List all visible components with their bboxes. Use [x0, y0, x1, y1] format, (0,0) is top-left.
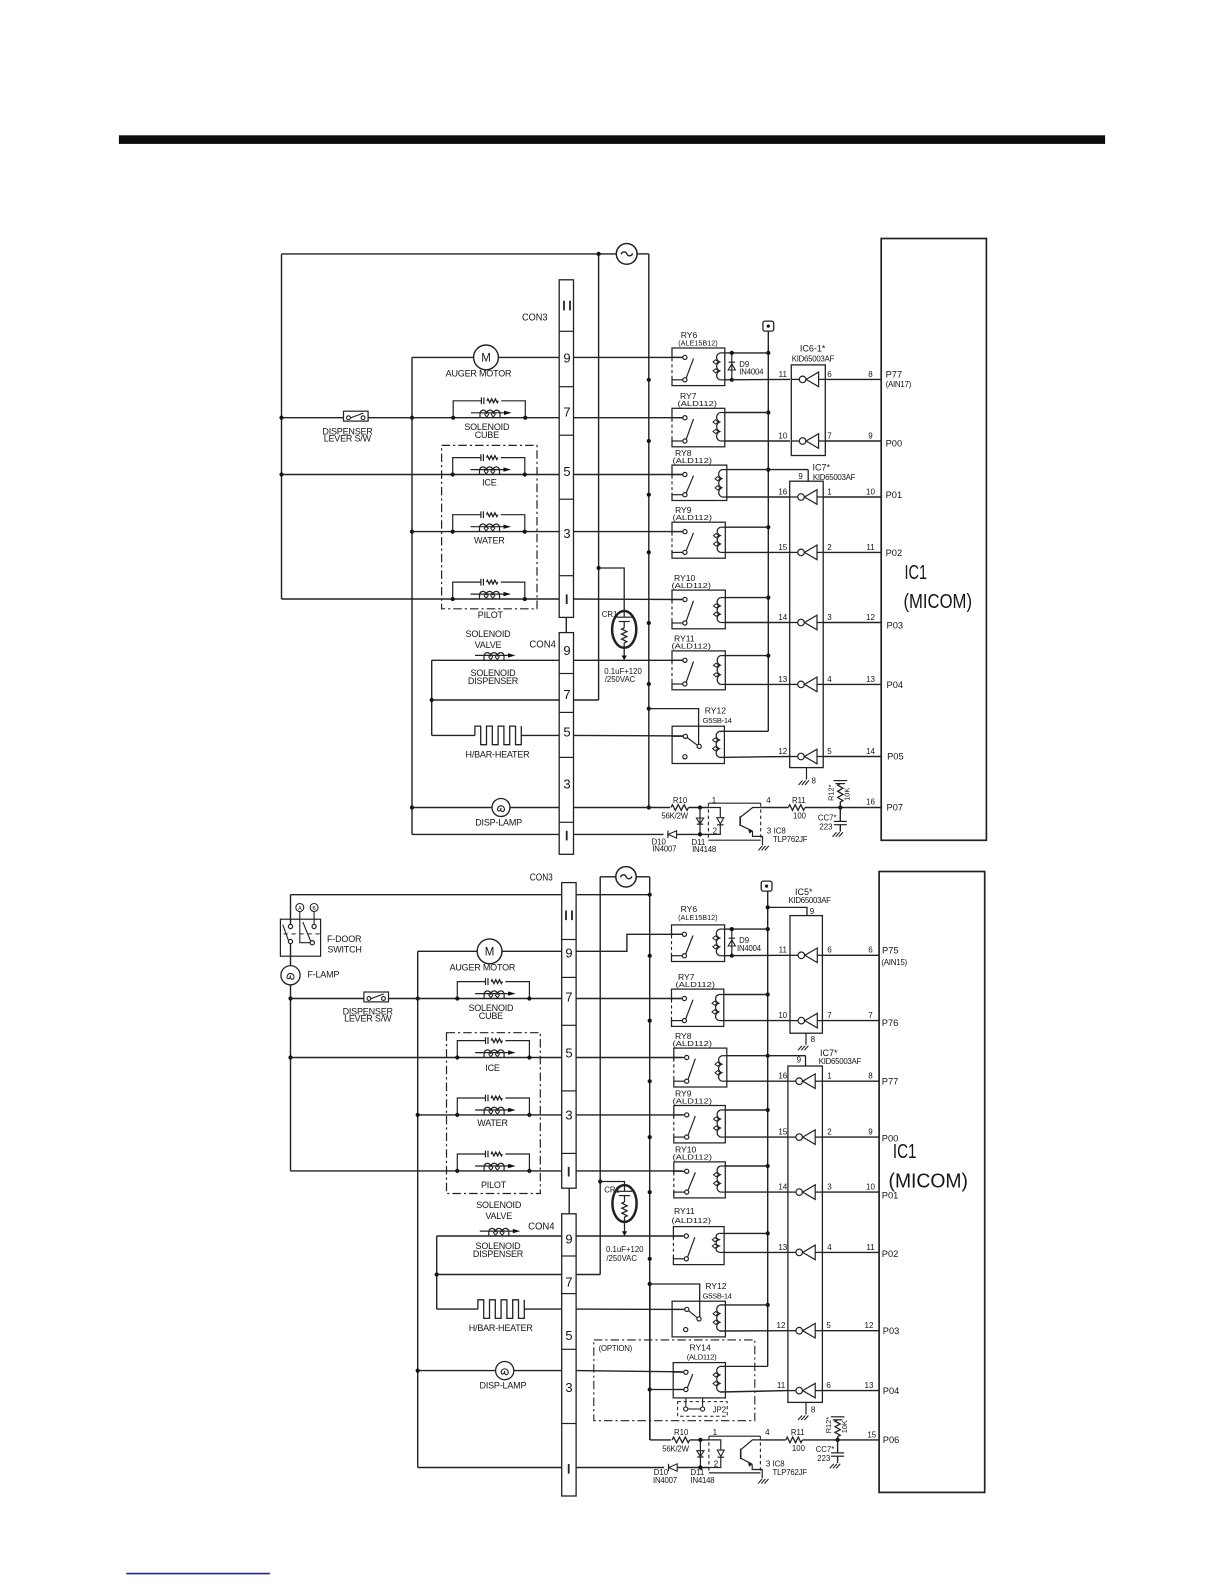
svg-text:6: 6	[826, 1381, 831, 1390]
svg-text:ICE: ICE	[485, 1063, 500, 1073]
svg-text:3: 3	[565, 1108, 572, 1123]
svg-text:(ALD112): (ALD112)	[673, 1096, 713, 1105]
svg-text:13: 13	[865, 1381, 874, 1390]
svg-text:7: 7	[565, 1275, 572, 1290]
svg-text:7: 7	[565, 989, 572, 1004]
svg-text:CON4: CON4	[528, 1221, 555, 1233]
svg-text:5: 5	[826, 1321, 831, 1330]
svg-text:(ALD112): (ALD112)	[672, 581, 712, 590]
svg-text:CR1: CR1	[604, 1185, 620, 1194]
svg-text:H/BAR-HEATER: H/BAR-HEATER	[466, 749, 531, 759]
svg-text:F-DOOR: F-DOOR	[327, 934, 362, 944]
svg-text:13: 13	[778, 1243, 787, 1252]
svg-text:10: 10	[866, 487, 875, 496]
svg-text:100: 100	[793, 812, 807, 821]
svg-text:WATER: WATER	[477, 1118, 508, 1128]
svg-text:15: 15	[778, 543, 787, 552]
svg-text:P07: P07	[887, 803, 904, 813]
svg-text:12: 12	[866, 613, 875, 622]
svg-text:VALVE: VALVE	[475, 640, 502, 650]
svg-text:WATER: WATER	[474, 536, 505, 546]
svg-text:7: 7	[563, 404, 570, 419]
svg-text:2: 2	[714, 1459, 719, 1468]
svg-text:2: 2	[713, 827, 718, 836]
svg-text:16: 16	[778, 1072, 787, 1081]
svg-text:(ALE15B12): (ALE15B12)	[678, 339, 718, 348]
svg-text:56K/2W: 56K/2W	[661, 811, 688, 820]
svg-text:100: 100	[792, 1444, 806, 1453]
svg-text:AUGER MOTOR: AUGER MOTOR	[450, 963, 516, 973]
svg-text:KID65003AF: KID65003AF	[789, 896, 832, 905]
svg-text:2: 2	[827, 1128, 832, 1137]
svg-text:IN4148: IN4148	[691, 1476, 715, 1485]
svg-text:8: 8	[868, 370, 873, 379]
svg-text:6: 6	[827, 946, 832, 955]
svg-text:6: 6	[827, 370, 832, 379]
svg-text:9: 9	[563, 643, 570, 658]
svg-text:7: 7	[868, 1011, 873, 1020]
svg-text:CR1: CR1	[602, 610, 618, 619]
svg-text:3: 3	[563, 526, 570, 541]
svg-text:A: A	[298, 906, 302, 912]
svg-text:DISPENSER: DISPENSER	[468, 676, 519, 686]
svg-text:11: 11	[779, 946, 788, 955]
svg-text:IN4007: IN4007	[652, 845, 676, 854]
svg-text:(ALD112): (ALD112)	[673, 1153, 713, 1162]
svg-text:13: 13	[778, 675, 787, 684]
svg-text:ICE: ICE	[482, 477, 497, 487]
svg-text:G5SB-14: G5SB-14	[703, 1291, 732, 1300]
svg-text:8: 8	[868, 1072, 873, 1081]
svg-text:LEVER S/W: LEVER S/W	[344, 1014, 392, 1024]
svg-text:9: 9	[565, 945, 572, 960]
svg-text:LEVER S/W: LEVER S/W	[324, 433, 372, 443]
svg-text:(ALD112): (ALD112)	[673, 1039, 713, 1048]
svg-text:5: 5	[563, 725, 570, 740]
svg-text:KID65003AF: KID65003AF	[792, 355, 835, 364]
svg-text:3: 3	[563, 777, 570, 792]
svg-text:10: 10	[866, 1183, 875, 1192]
svg-text:56K/2W: 56K/2W	[662, 1444, 689, 1453]
svg-text:H/BAR-HEATER: H/BAR-HEATER	[469, 1323, 534, 1333]
svg-text:RY14: RY14	[689, 1342, 711, 1352]
svg-text:VALVE: VALVE	[485, 1211, 512, 1221]
svg-text:(MICOM): (MICOM)	[904, 590, 973, 613]
svg-text:16: 16	[866, 797, 875, 806]
svg-text:14: 14	[778, 1183, 787, 1192]
svg-text:15: 15	[867, 1431, 876, 1440]
svg-text:16: 16	[778, 487, 787, 496]
svg-text:(ALD112): (ALD112)	[676, 980, 716, 989]
svg-text:G5SB-14: G5SB-14	[703, 716, 732, 725]
svg-text:0.1uF+120: 0.1uF+120	[606, 1245, 644, 1254]
svg-text:1: 1	[827, 487, 832, 496]
svg-text:(AIN17): (AIN17)	[886, 380, 912, 389]
svg-text:14: 14	[778, 613, 787, 622]
svg-text:P02: P02	[886, 548, 903, 558]
svg-text:R12*: R12*	[824, 1417, 833, 1434]
svg-text:9: 9	[797, 1056, 802, 1065]
svg-text:(ALD112): (ALD112)	[678, 399, 718, 408]
svg-text:/250VAC: /250VAC	[605, 675, 636, 684]
svg-text:15: 15	[778, 1128, 787, 1137]
svg-text:P77: P77	[882, 1077, 899, 1087]
svg-text:IN4004: IN4004	[739, 368, 764, 377]
svg-text:PILOT: PILOT	[481, 1180, 507, 1190]
svg-text:10: 10	[778, 431, 787, 440]
svg-text:P03: P03	[887, 620, 904, 630]
svg-text:7: 7	[827, 431, 832, 440]
svg-text:R10: R10	[673, 796, 688, 805]
svg-text:11: 11	[866, 543, 875, 552]
svg-text:(MICOM): (MICOM)	[889, 1170, 969, 1193]
svg-text:12: 12	[865, 1321, 874, 1330]
svg-text:3: 3	[827, 613, 832, 622]
svg-text:(ALD112): (ALD112)	[672, 642, 712, 651]
svg-text:8: 8	[811, 1035, 816, 1044]
svg-text:AUGER MOTOR: AUGER MOTOR	[446, 368, 512, 378]
svg-text:5: 5	[563, 464, 570, 479]
svg-text:M: M	[481, 353, 491, 365]
svg-text:R12*: R12*	[827, 784, 836, 801]
svg-text:(OPTION): (OPTION)	[599, 1344, 633, 1353]
svg-text:P00: P00	[882, 1134, 899, 1144]
svg-text:(ALD112): (ALD112)	[673, 513, 713, 522]
svg-text:P01: P01	[886, 490, 903, 500]
svg-text:PILOT: PILOT	[478, 610, 504, 620]
svg-text:P03: P03	[883, 1326, 900, 1336]
svg-text:5: 5	[565, 1328, 572, 1343]
svg-text:11: 11	[779, 370, 788, 379]
svg-text:M: M	[485, 947, 495, 959]
svg-text:P00: P00	[886, 438, 903, 448]
svg-text:1: 1	[713, 1428, 718, 1437]
svg-text:223: 223	[817, 1454, 830, 1463]
svg-text:CUBE: CUBE	[479, 1011, 503, 1021]
svg-text:(AIN15): (AIN15)	[881, 958, 907, 967]
svg-text:9: 9	[868, 431, 873, 440]
svg-text:11: 11	[866, 1243, 875, 1252]
svg-text:2: 2	[827, 543, 832, 552]
svg-text:IN4004: IN4004	[737, 944, 762, 953]
svg-text:CC7*: CC7*	[816, 1445, 835, 1454]
svg-text:13: 13	[866, 675, 875, 684]
svg-text:9: 9	[868, 1128, 873, 1137]
svg-text:P06: P06	[883, 1435, 900, 1445]
svg-text:9: 9	[563, 351, 570, 366]
svg-text:CON3: CON3	[530, 871, 553, 883]
svg-text:TLP762JF: TLP762JF	[773, 1468, 808, 1477]
svg-text:CON3: CON3	[522, 311, 548, 323]
svg-text:IC6-1*: IC6-1*	[800, 344, 826, 354]
svg-text:RY12: RY12	[705, 1281, 727, 1291]
svg-text:CUBE: CUBE	[475, 430, 499, 440]
svg-text:KID65003AF: KID65003AF	[813, 473, 856, 482]
svg-text:IC1: IC1	[905, 561, 928, 584]
svg-text:11: 11	[777, 1381, 786, 1390]
svg-text:SOLENOID: SOLENOID	[466, 629, 512, 639]
svg-text:P04: P04	[883, 1386, 900, 1396]
svg-text:RY11: RY11	[674, 1206, 695, 1216]
svg-text:/250VAC: /250VAC	[606, 1254, 637, 1263]
svg-text:R11: R11	[792, 796, 806, 805]
svg-text:P05: P05	[887, 751, 904, 761]
svg-text:(ALE15B12): (ALE15B12)	[678, 913, 718, 922]
svg-text:P01: P01	[882, 1190, 899, 1200]
svg-text:IN4148: IN4148	[692, 845, 716, 854]
svg-text:TLP762JF: TLP762JF	[773, 835, 808, 844]
svg-text:4: 4	[827, 1243, 832, 1252]
svg-text:3: 3	[767, 827, 772, 836]
svg-text:4: 4	[766, 796, 771, 805]
svg-text:DISPENSER: DISPENSER	[473, 1249, 524, 1259]
svg-text:5: 5	[827, 747, 832, 756]
svg-text:4: 4	[765, 1428, 770, 1437]
svg-text:F-LAMP: F-LAMP	[307, 970, 339, 980]
svg-text:3: 3	[565, 1380, 572, 1395]
svg-text:6: 6	[868, 946, 873, 955]
svg-text:3: 3	[827, 1183, 832, 1192]
svg-text:10K: 10K	[843, 788, 852, 801]
svg-text:DISP-LAMP: DISP-LAMP	[480, 1381, 527, 1391]
svg-text:1: 1	[712, 796, 717, 805]
svg-text:14: 14	[866, 747, 875, 756]
svg-text:12: 12	[777, 1321, 786, 1330]
svg-text:SWITCH: SWITCH	[327, 945, 361, 955]
svg-text:CC7*: CC7*	[818, 814, 837, 823]
svg-text:B: B	[312, 906, 316, 912]
svg-text:IC1: IC1	[893, 1140, 917, 1163]
svg-text:223: 223	[819, 822, 832, 831]
svg-text:1: 1	[827, 1072, 832, 1081]
svg-text:CON4: CON4	[529, 638, 556, 650]
svg-text:JP2: JP2	[713, 1406, 726, 1415]
svg-text:P77: P77	[886, 370, 903, 380]
svg-text:9: 9	[565, 1232, 572, 1247]
svg-text:P02: P02	[882, 1249, 899, 1259]
svg-text:10K: 10K	[840, 1420, 849, 1433]
svg-text:5: 5	[565, 1045, 572, 1060]
svg-text:12: 12	[778, 747, 787, 756]
svg-text:(ALD112): (ALD112)	[673, 456, 713, 465]
svg-text:10: 10	[778, 1011, 787, 1020]
svg-text:P76: P76	[882, 1018, 899, 1028]
svg-text:KID65003AF: KID65003AF	[819, 1057, 862, 1066]
svg-text:R11: R11	[791, 1428, 805, 1437]
svg-text:7: 7	[563, 687, 570, 702]
svg-text:3: 3	[766, 1459, 771, 1468]
svg-text:R10: R10	[674, 1428, 689, 1437]
svg-text:IN4007: IN4007	[653, 1476, 677, 1485]
svg-text:P04: P04	[887, 680, 904, 690]
svg-text:9: 9	[798, 472, 803, 481]
svg-text:(ALD112): (ALD112)	[687, 1353, 717, 1362]
svg-text:SOLENOID: SOLENOID	[476, 1200, 522, 1210]
svg-text:7: 7	[827, 1011, 832, 1020]
svg-text:8: 8	[811, 1405, 816, 1414]
svg-text:IC7*: IC7*	[813, 463, 831, 473]
svg-text:9: 9	[810, 907, 815, 916]
svg-text:8: 8	[812, 776, 817, 785]
svg-text:RY12: RY12	[705, 706, 727, 716]
svg-text:P75: P75	[882, 946, 899, 956]
svg-text:DISP-LAMP: DISP-LAMP	[475, 817, 522, 827]
svg-text:4: 4	[827, 675, 832, 684]
svg-text:(ALD112): (ALD112)	[672, 1216, 712, 1225]
